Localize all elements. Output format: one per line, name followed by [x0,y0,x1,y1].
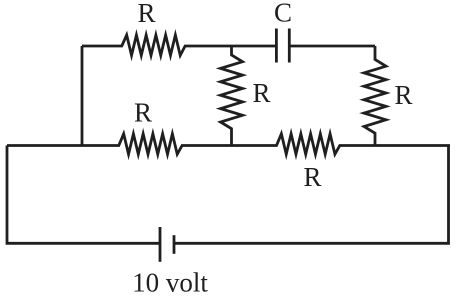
svg-text:R: R [134,97,152,127]
svg-text:R: R [252,78,270,108]
svg-text:10 volt: 10 volt [132,268,208,298]
svg-text:C: C [274,0,292,28]
svg-text:R: R [303,162,321,192]
svg-text:R: R [137,0,155,28]
svg-text:R: R [394,80,412,110]
